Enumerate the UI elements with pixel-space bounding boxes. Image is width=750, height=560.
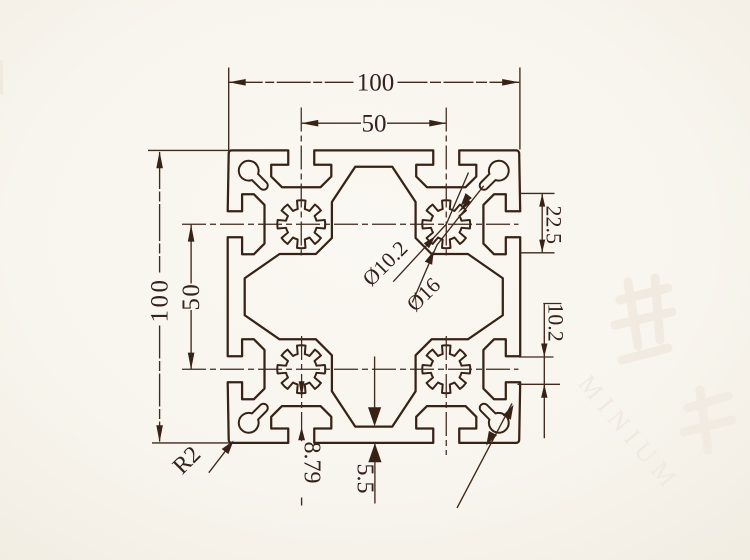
arrowhead keyhole leader lower	[486, 431, 497, 446]
vertical centerline right upper	[445, 108, 447, 259]
arrowhead 50 left top	[188, 225, 195, 242]
dimension 100 left: extension lines	[148, 149, 230, 151]
corner keyhole top-left	[239, 161, 268, 190]
dimension 22.5 right: extension lines	[521, 192, 555, 194]
dimension 100 left: dimension line	[159, 152, 161, 273]
leader diameter 16 spline outer circle	[412, 186, 483, 303]
arrowhead 8.79 upper	[299, 381, 305, 398]
corner keyhole bottom-left	[239, 404, 268, 433]
horizontal centerline upper gears	[182, 223, 519, 225]
corner keyhole bottom-right	[480, 404, 509, 433]
arrowhead 100 top left	[229, 79, 246, 86]
spline hole bottom-left	[277, 345, 325, 393]
dimension 22.5 right: dimension line	[541, 193, 543, 252]
vertical centerline right lower	[445, 336, 447, 455]
arrowhead dia10.2 lower	[424, 236, 435, 248]
svg-text:50: 50	[362, 111, 387, 138]
leader diameter 10.2 spline inner circle	[393, 173, 468, 282]
arrowhead 5.5 outer	[368, 443, 381, 462]
profile outer outline with eight T-slots	[228, 150, 521, 443]
arrowhead 50 top right	[429, 120, 446, 127]
dimension 50 top: dimension line	[301, 122, 361, 124]
arrowhead 5.5 inner	[368, 407, 381, 426]
dimension 100 top: extension lines	[228, 68, 230, 151]
arrowhead 8.79 lower	[298, 427, 305, 440]
arrowhead 100 top right	[502, 79, 519, 86]
central cavity outline	[245, 167, 503, 427]
spline hole bottom-right	[422, 345, 470, 393]
leader R2 corner radius	[209, 442, 233, 473]
arrowhead 100 left bottom	[156, 425, 163, 442]
arrowhead 22.5 bottom	[539, 240, 545, 253]
horizontal centerline lower gears	[182, 368, 519, 370]
dimension 10.2 right: extension lines	[519, 356, 554, 358]
svg-text:10.2: 10.2	[544, 303, 569, 342]
arrowhead 10.2 lower	[541, 384, 547, 398]
scan speck left edge	[0, 60, 3, 94]
arrowhead dia16 lower	[425, 251, 434, 265]
faint watermark glyph	[615, 278, 732, 450]
vertical centerline left upper	[300, 108, 302, 259]
svg-text:100: 100	[147, 278, 174, 323]
vertical centerline left lower	[301, 336, 303, 441]
corner keyhole top-right	[480, 161, 509, 190]
spline hole top-left	[277, 200, 325, 248]
arrowhead keyhole leader upper	[503, 405, 514, 420]
arrowhead 22.5 top	[539, 194, 545, 207]
svg-text:100: 100	[357, 70, 395, 97]
dimension 50 left: dimension line	[190, 225, 192, 284]
arrowhead dia16 upper	[461, 193, 472, 206]
svg-text:22.5: 22.5	[542, 206, 567, 245]
svg-text:8.79: 8.79	[299, 442, 325, 484]
arrowhead 100 left top	[156, 151, 163, 168]
spline hole top-right	[422, 200, 470, 248]
dimension 5.5 bottom: dimension lines	[374, 357, 376, 414]
dimension 10.2 right: dimension line with top tick	[543, 304, 545, 439]
arrowhead dia10.2 upper	[458, 199, 471, 213]
arrowhead 10.2 upper	[541, 344, 547, 358]
leader bottom-right corner keyhole	[457, 404, 512, 509]
arrowhead R2	[222, 441, 234, 455]
dimension 8.79 bottom: dimension line	[301, 440, 303, 442]
svg-text:50: 50	[178, 283, 205, 311]
arrowhead 50 left bottom	[188, 353, 195, 370]
arrowhead 50 top left	[301, 120, 318, 127]
dimension 100 top: dimension line	[229, 81, 354, 83]
svg-text:5.5: 5.5	[352, 464, 378, 494]
